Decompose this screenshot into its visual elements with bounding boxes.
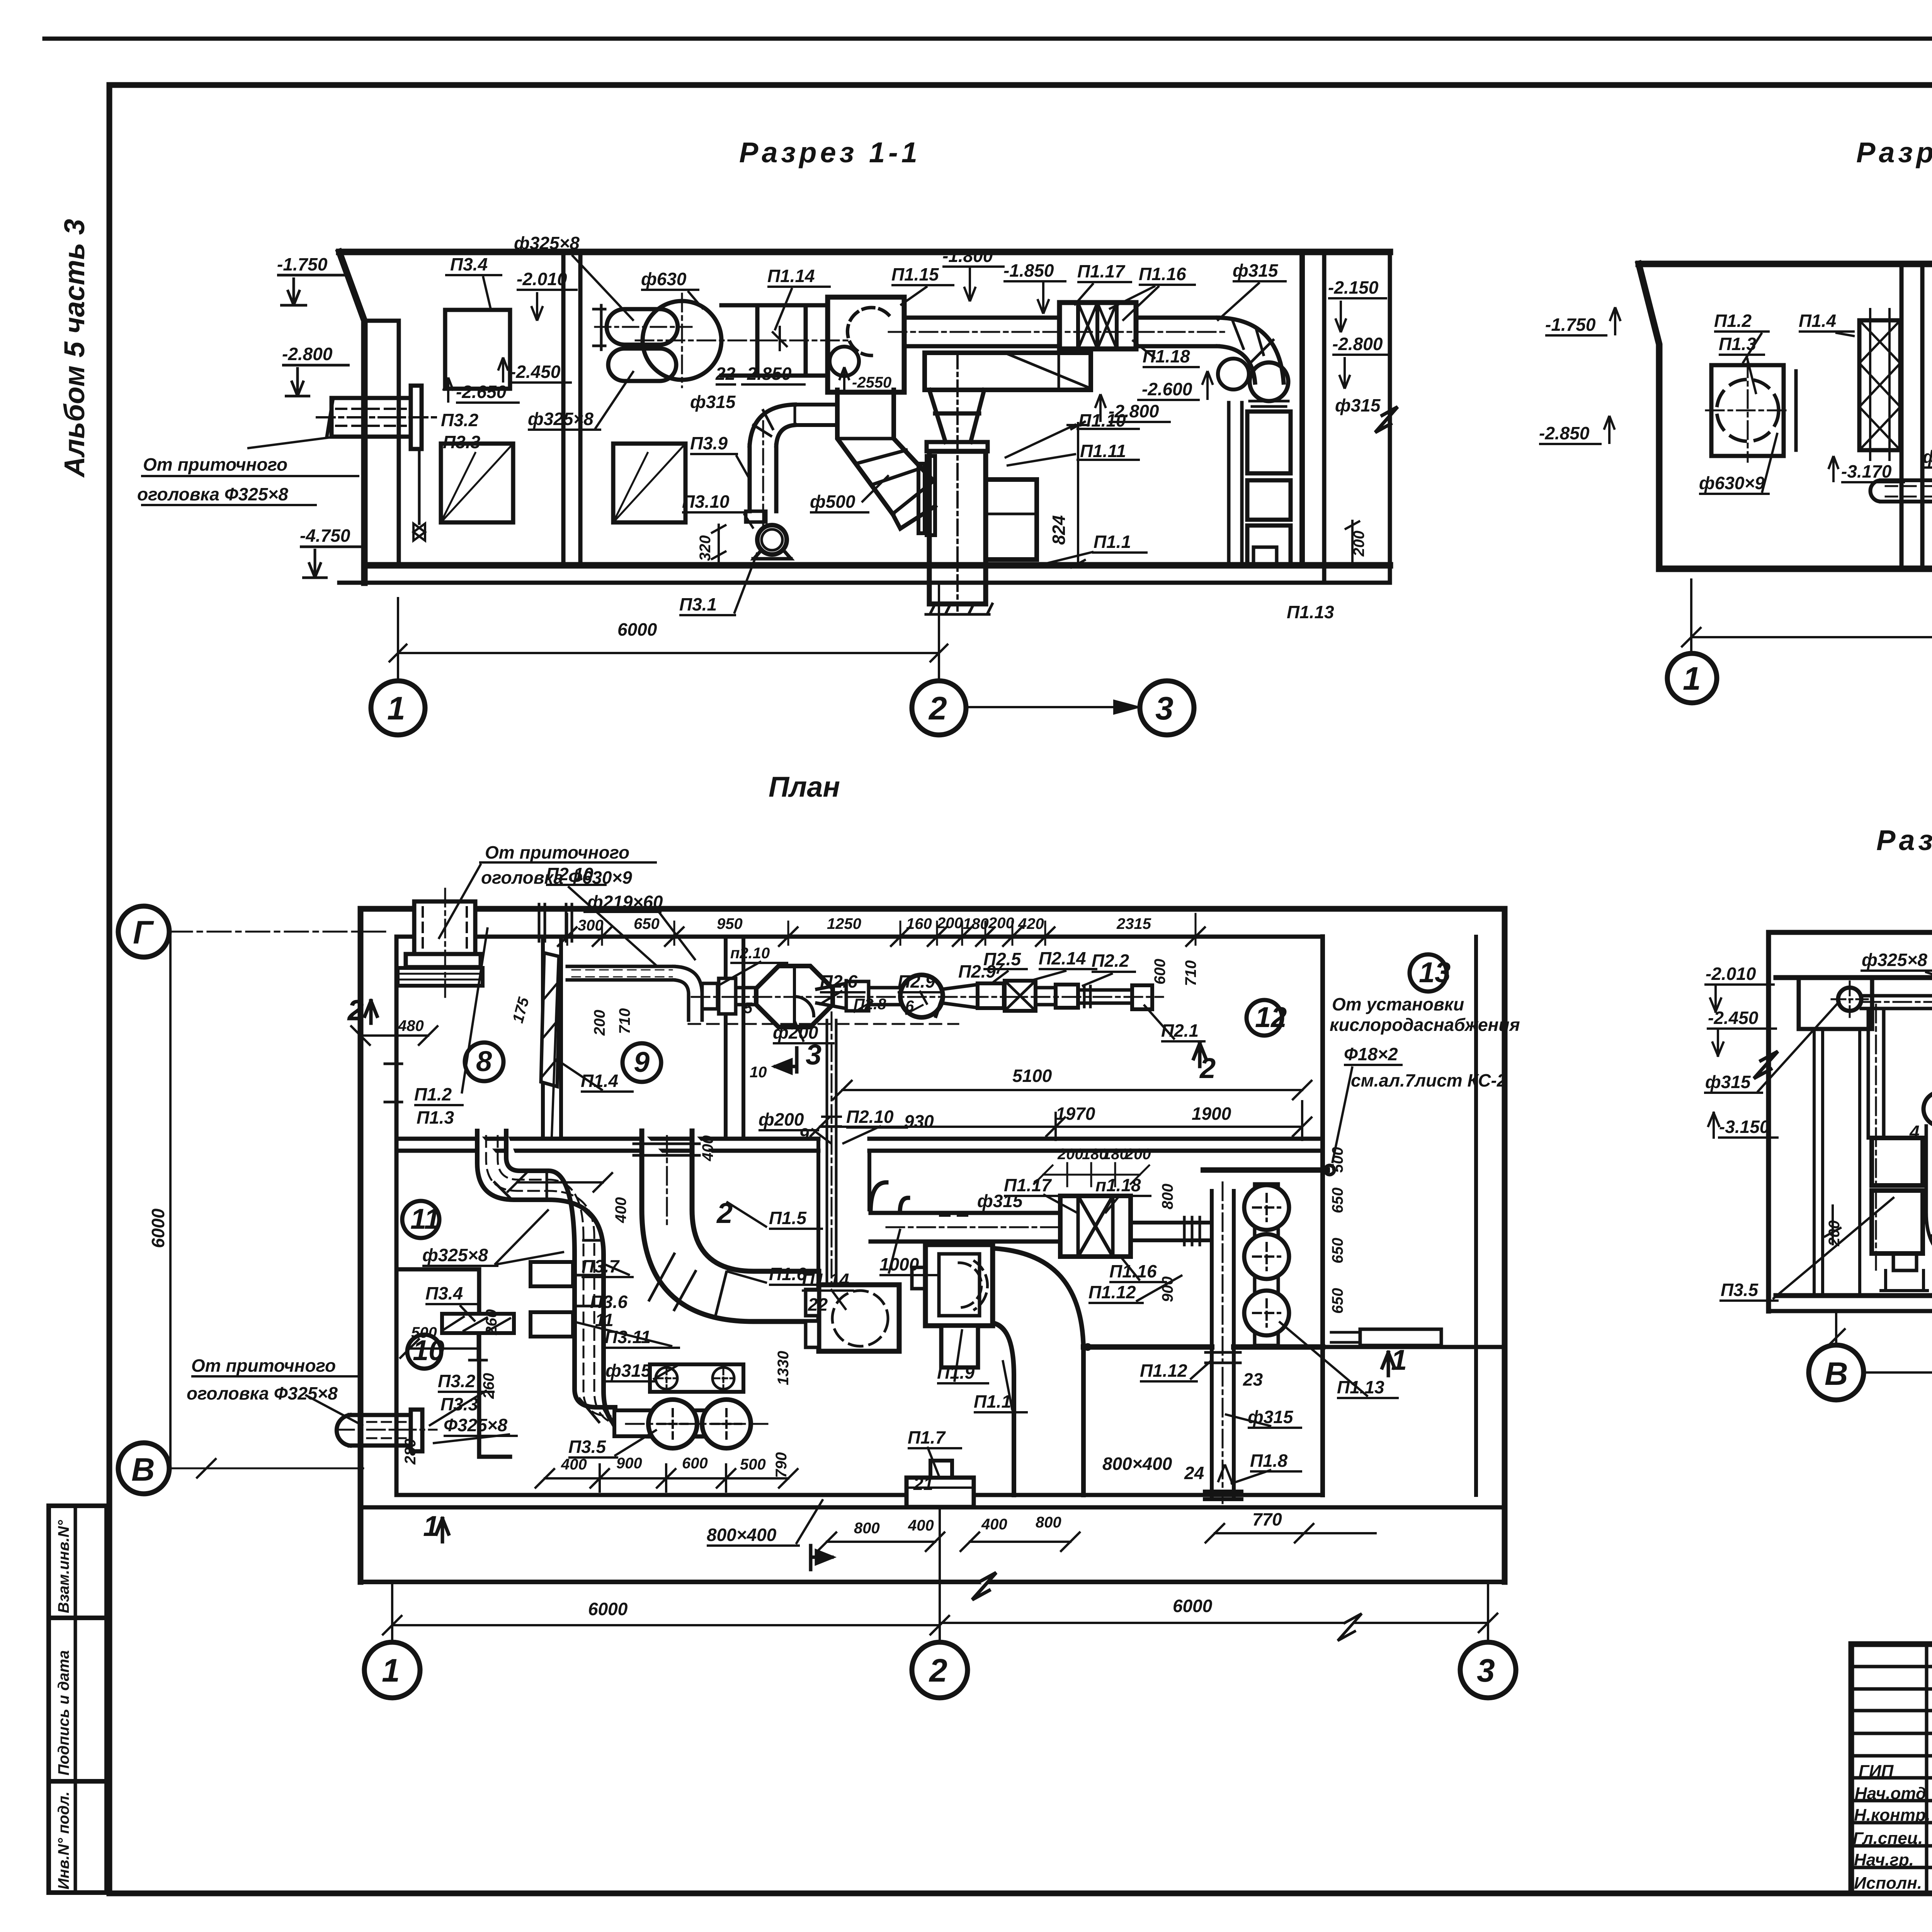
section mark 2 left [365, 1001, 377, 1023]
ceiling line [1639, 261, 1932, 267]
round duct ф219 dashed run [567, 966, 674, 980]
svg-text:320: 320 [697, 535, 714, 561]
svg-text:Исполн.: Исполн. [1854, 1874, 1922, 1893]
fan unit П1.15 [828, 297, 904, 392]
sec2-2 leaders and marks [1539, 307, 1932, 618]
dim line 6000 [1682, 576, 1932, 657]
svg-text:-2.850: -2.850 [741, 364, 792, 384]
svg-text:П3.1: П3.1 [679, 594, 717, 614]
svg-text:ф315: ф315 [1248, 1407, 1294, 1427]
svg-text:10: 10 [750, 1064, 767, 1081]
partition wall [561, 252, 566, 565]
louver П1.4 slanted strip [541, 953, 560, 1087]
svg-text:-2.450: -2.450 [510, 362, 561, 382]
svg-text:П1.3: П1.3 [1719, 334, 1756, 354]
svg-text:2: 2 [929, 1652, 947, 1689]
elevation mark -2.800 [282, 365, 350, 396]
П1.13 distributors [1255, 1184, 1278, 1345]
svg-text:П1.12: П1.12 [1140, 1361, 1187, 1381]
mark -2.550 in box [839, 367, 900, 392]
svg-text:П1.15: П1.15 [891, 264, 939, 284]
svg-text:400: 400 [561, 1456, 587, 1473]
break zigzag right [1375, 407, 1398, 432]
svg-text:П3.4: П3.4 [450, 254, 488, 274]
svg-text:Инв.N° подл.: Инв.N° подл. [55, 1791, 72, 1889]
floor [1776, 1293, 1932, 1298]
svg-text:1: 1 [1391, 1344, 1407, 1376]
dim 600 room11 [508, 1173, 612, 1192]
svg-text:П3.2: П3.2 [438, 1371, 475, 1391]
underline ф630 + leader [641, 290, 703, 309]
svg-text:-1.800: -1.800 [942, 246, 993, 266]
svg-text:План: План [769, 771, 840, 803]
boxes П3.7 П3.6 on duct [531, 1262, 573, 1286]
svg-text:6000: 6000 [1173, 1596, 1213, 1616]
left wall [1766, 932, 1771, 1311]
wall grille П3.3 left [441, 444, 513, 522]
svg-text:ф200: ф200 [759, 1109, 804, 1129]
svg-text:200: 200 [988, 915, 1014, 932]
svg-text:П2.10: П2.10 [846, 1107, 894, 1127]
svg-text:-1.750: -1.750 [277, 254, 328, 274]
svg-text:От установки: От установки [1332, 994, 1464, 1014]
П3.6 circle [1923, 1092, 1932, 1126]
svg-text:П3.2: П3.2 [441, 410, 478, 430]
svg-text:-2.800: -2.800 [1332, 334, 1383, 354]
svg-text:От приточного: От приточного [485, 842, 629, 862]
wall room9 right [726, 937, 743, 1139]
svg-text:Разрез 1-1: Разрез 1-1 [739, 136, 921, 168]
svg-text:2: 2 [928, 690, 947, 726]
underline -2.850 + П3.9 П3.10 leaders [682, 384, 806, 529]
svg-text:ф630: ф630 [641, 269, 687, 289]
svg-text:Нач.отд: Нач.отд [1855, 1784, 1926, 1803]
grid circle 1 sec2 [1667, 653, 1717, 703]
svg-text:-2.850: -2.850 [1539, 423, 1590, 443]
dim 824 [1066, 421, 1090, 568]
svg-text:650: 650 [1329, 1288, 1346, 1314]
elbow ф315 and fan П3.1 [750, 405, 795, 446]
svg-text:200: 200 [1057, 1146, 1083, 1163]
grille П1.2 П1.3 [1711, 365, 1784, 456]
bottom wall double [396, 1493, 1323, 1497]
svg-text:770: 770 [1252, 1509, 1282, 1529]
mid horizontal wall [396, 1139, 818, 1151]
elbow П1.9 [837, 390, 934, 514]
svg-text:От приточного: От приточного [191, 1355, 336, 1376]
fan П2.9 plan [900, 975, 943, 1017]
svg-text:900: 900 [616, 1455, 642, 1472]
svg-text:260: 260 [480, 1373, 497, 1399]
svg-text:ф219×60: ф219×60 [587, 892, 663, 912]
svg-text:Нач.гр.: Нач.гр. [1854, 1850, 1914, 1869]
svg-text:9: 9 [799, 1124, 809, 1145]
grid circle 1 [371, 681, 425, 735]
box П2.2 [1056, 985, 1078, 1008]
svg-text:-1.850: -1.850 [1003, 260, 1054, 281]
svg-text:-2.600: -2.600 [1142, 379, 1192, 399]
svg-text:200: 200 [1125, 1146, 1151, 1163]
fan П1.1 П1.9 plan [925, 1245, 993, 1326]
break zigzag on outer line [972, 1573, 996, 1600]
room10/11 divider [396, 1269, 479, 1457]
svg-text:600: 600 [1151, 959, 1168, 985]
mark -1.850 [1003, 281, 1066, 314]
leader from note to intake [141, 437, 359, 476]
duct to П1.13 [1203, 1167, 1327, 1173]
svg-text:650: 650 [1329, 1238, 1346, 1264]
svg-text:-3.150: -3.150 [1719, 1117, 1770, 1137]
main title block outer [1851, 1644, 1932, 1893]
svg-text:400: 400 [612, 1197, 629, 1223]
svg-text:П3.6: П3.6 [590, 1292, 628, 1312]
svg-text:-2.450: -2.450 [1708, 1008, 1759, 1028]
svg-text:200: 200 [1826, 1220, 1843, 1247]
mark -2.450 [498, 357, 572, 383]
svg-text:6000: 6000 [588, 1599, 628, 1619]
plan grid circles bottom [364, 1642, 420, 1698]
section mark 3 top [776, 1048, 797, 1073]
svg-text:П1.12: П1.12 [1088, 1282, 1136, 1302]
wall room8/9 [543, 937, 561, 1139]
svg-text:260: 260 [483, 1309, 500, 1335]
svg-text:П1.3: П1.3 [417, 1107, 454, 1128]
svg-text:280: 280 [402, 1439, 419, 1465]
svg-text:1970: 1970 [1056, 1104, 1095, 1124]
mark -2.650 [443, 378, 520, 403]
grid circle Г [118, 906, 169, 957]
section mark 1 bottom left [436, 1519, 449, 1542]
grid circle В [118, 1443, 169, 1494]
svg-text:ф500: ф500 [810, 492, 855, 512]
svg-text:650: 650 [634, 915, 660, 932]
svg-text:600: 600 [682, 1455, 708, 1472]
labels leaders sec3-3 [1862, 971, 1932, 990]
svg-text:-2550: -2550 [852, 374, 891, 391]
underline ф325х8 second [528, 371, 634, 430]
dim 500 [400, 1339, 479, 1358]
svg-text:800×400: 800×400 [1102, 1454, 1172, 1474]
svg-text:П1.8: П1.8 [1250, 1451, 1287, 1471]
sec1-1 labels [141, 254, 1391, 713]
П3 S-duct ф325х8 [477, 1131, 737, 1436]
svg-text:ф630×9: ф630×9 [1699, 473, 1765, 493]
svg-text:П3.10: П3.10 [682, 492, 730, 512]
inner wall left [1814, 1029, 1860, 1296]
right compartment walls [1299, 252, 1305, 565]
underline П1.16 + leader [1109, 285, 1196, 321]
duct from circle to П1.6 [1861, 996, 1932, 1009]
svg-text:В: В [131, 1451, 155, 1488]
cone П2.8 [817, 981, 846, 1011]
cone transition П1.10 [929, 390, 984, 442]
underline П1.18 + leader [1132, 340, 1200, 367]
ceiling line [339, 249, 1390, 255]
room number circles [402, 954, 1447, 1369]
svg-text:П1.11: П1.11 [1080, 441, 1126, 461]
bottom grid dim lines [383, 1614, 1497, 1634]
grid axis В line [169, 1468, 363, 1469]
dim 200-180-180-200 right [1034, 1163, 1149, 1186]
svg-text:-4.750: -4.750 [300, 526, 350, 546]
svg-text:Разрез 2-2: Разрез 2-2 [1856, 136, 1932, 168]
svg-text:Взам.инв.N°: Взам.инв.N° [55, 1520, 72, 1613]
signature table rows [1851, 1667, 1932, 1867]
svg-text:1330: 1330 [775, 1351, 792, 1385]
fan П2.1 duct and cap [1078, 990, 1132, 1003]
svg-text:400: 400 [699, 1135, 716, 1162]
leader П1.1 [1043, 552, 1148, 564]
svg-text:П2.6: П2.6 [820, 971, 857, 992]
svg-text:480: 480 [398, 1017, 424, 1034]
svg-text:Н.контр.: Н.контр. [1854, 1806, 1930, 1825]
svg-text:-2.650: -2.650 [456, 382, 507, 402]
ф315 end circle [1838, 988, 1861, 1011]
svg-text:5: 5 [744, 1000, 753, 1017]
svg-text:П3.5: П3.5 [568, 1437, 606, 1457]
svg-text:400: 400 [981, 1516, 1007, 1533]
svg-text:Разрез 3-3: Разрез 3-3 [1876, 824, 1932, 856]
svg-text:22: 22 [715, 364, 736, 384]
svg-text:180: 180 [963, 915, 989, 932]
box П3.4 [445, 310, 510, 389]
svg-text:180: 180 [1102, 1146, 1128, 1163]
svg-text:9: 9 [634, 1046, 650, 1078]
svg-text:В: В [1825, 1355, 1848, 1392]
intake duct through left wall [332, 398, 411, 437]
svg-text:6: 6 [905, 998, 914, 1015]
plenum box center [925, 353, 1091, 390]
right zone elevation marks [1328, 298, 1387, 332]
heaters П3.5 left [1872, 1138, 1923, 1185]
svg-text:13: 13 [1419, 956, 1451, 988]
svg-text:Ф325×8: Ф325×8 [444, 1415, 508, 1435]
floor [1659, 566, 1932, 572]
grille stub right room [1360, 1329, 1441, 1345]
svg-text:-2.010: -2.010 [517, 269, 567, 289]
leaders П1.10 П1.11 [1005, 424, 1076, 466]
intake stub ф630х9 top left [414, 901, 475, 954]
underline П1.17 + leader [1074, 282, 1132, 305]
svg-text:ф219×6: ф219×6 [1923, 447, 1932, 467]
mark -2.600 up arrow [1137, 371, 1213, 400]
svg-text:ф315: ф315 [1335, 395, 1381, 415]
svg-text:П2.2: П2.2 [1092, 951, 1129, 971]
svg-text:П1.6: П1.6 [769, 1264, 806, 1284]
svg-text:ф325×8: ф325×8 [1862, 950, 1927, 970]
svg-text:200: 200 [937, 915, 963, 932]
svg-text:П3.4: П3.4 [425, 1283, 463, 1303]
underline П1.14 + leader [767, 287, 831, 330]
duct heater to elbow [1136, 318, 1218, 346]
svg-text:ф315: ф315 [605, 1361, 651, 1381]
svg-text:8: 8 [476, 1045, 492, 1077]
section mark 2 right top [1194, 1043, 1206, 1066]
grid circle 3 [1140, 681, 1194, 735]
svg-text:От приточного: От приточного [143, 454, 287, 474]
heater stack П1.13 [1229, 403, 1242, 561]
section mark 3 bottom [811, 1546, 832, 1570]
dim 930 1970 1900 [811, 1101, 1311, 1140]
svg-text:3: 3 [1155, 690, 1173, 726]
elevation mark -4.750 [300, 547, 367, 578]
svg-text:160: 160 [906, 915, 932, 932]
svg-text:П1.18: П1.18 [1143, 346, 1190, 366]
wall below rooms 12/13 [1323, 1345, 1505, 1349]
sheet top edge [44, 37, 1932, 41]
svg-text:1900: 1900 [1192, 1104, 1231, 1124]
break marks [1754, 1051, 1778, 1078]
svg-text:П1.5: П1.5 [769, 1208, 807, 1228]
svg-text:оголовка Ф325×8: оголовка Ф325×8 [187, 1383, 338, 1403]
svg-text:П2.14: П2.14 [1039, 948, 1086, 968]
svg-text:824: 824 [1049, 515, 1069, 545]
plan text labels [191, 862, 1403, 1546]
ф315 run to heater [871, 1213, 1060, 1242]
svg-text:6000: 6000 [617, 619, 657, 639]
twin round ducts ф325х8 [607, 309, 678, 345]
svg-text:П1.13: П1.13 [1337, 1377, 1384, 1397]
duct ф200 vertical [827, 1020, 836, 1285]
svg-text:П3.9: П3.9 [690, 433, 728, 453]
grid dim line [389, 583, 948, 681]
svg-text:ф315: ф315 [1233, 260, 1279, 281]
section mark 1 right [1382, 1352, 1395, 1376]
svg-text:1: 1 [1683, 660, 1701, 697]
svg-text:П3.5: П3.5 [1721, 1280, 1759, 1300]
dims 800 400 bottom [818, 1532, 1080, 1551]
svg-text:900: 900 [1159, 1276, 1176, 1302]
svg-text:500: 500 [740, 1456, 766, 1473]
vertical duct ф315 [1212, 1191, 1234, 1498]
svg-text:2: 2 [1199, 1052, 1216, 1084]
svg-text:П2.8: П2.8 [854, 996, 886, 1013]
partition wall 1 [1901, 264, 1922, 569]
svg-text:ф315: ф315 [690, 392, 736, 412]
duct ф630 end view [643, 301, 721, 380]
svg-text:200: 200 [591, 1010, 608, 1036]
svg-text:П1.1: П1.1 [974, 1391, 1011, 1412]
duct П1.15 to heater [904, 318, 1060, 346]
underline П3.1 + leader [679, 553, 757, 615]
svg-text:П1.10: П1.10 [1078, 410, 1126, 430]
svg-text:650: 650 [1329, 1187, 1346, 1213]
corridor walls center [818, 1139, 869, 1347]
svg-text:Г: Г [133, 914, 154, 951]
svg-text:400: 400 [908, 1517, 934, 1534]
fan circles at elbow [1218, 359, 1249, 389]
fan П2.6 plan [756, 966, 833, 1027]
svg-text:22: 22 [808, 1294, 828, 1315]
svg-text:п1.18: п1.18 [1095, 1175, 1141, 1195]
svg-text:-3.170: -3.170 [1841, 461, 1892, 481]
svg-text:500: 500 [1329, 1147, 1346, 1173]
svg-text:П1.7: П1.7 [908, 1427, 946, 1447]
top slab line [1769, 930, 1932, 935]
round duct ф219х6 S run [1881, 480, 1932, 502]
underline П3.4 + leader [445, 275, 502, 309]
sec1-1 interior equipment [317, 294, 1291, 614]
svg-text:Подпись и дата: Подпись и дата [55, 1650, 72, 1776]
svg-text:4: 4 [1909, 1122, 1920, 1142]
svg-text:Альбом 5 часть 3: Альбом 5 часть 3 [58, 219, 90, 478]
svg-text:П2.9: П2.9 [898, 971, 935, 992]
svg-text:ф325×8: ф325×8 [422, 1245, 488, 1265]
wall grille right [613, 444, 685, 522]
svg-text:2315: 2315 [1116, 915, 1151, 932]
elbow down ф315 [1218, 318, 1284, 383]
svg-text:П1.17: П1.17 [1004, 1175, 1052, 1195]
big bend 800x400 down [995, 1248, 1083, 1495]
elevation mark -1.750 [277, 275, 348, 305]
svg-text:800: 800 [1159, 1184, 1176, 1209]
svg-text:П1.13: П1.13 [1287, 602, 1334, 622]
heater П1.17 П1.16 [1060, 303, 1136, 349]
left vertical dim 6000 [169, 932, 172, 1468]
svg-text:1250: 1250 [827, 915, 861, 932]
svg-text:-2.800: -2.800 [282, 344, 333, 364]
svg-text:ф325×8: ф325×8 [528, 409, 594, 429]
П3.5 heater assembly [650, 1364, 743, 1392]
left wall with bevel [1639, 264, 1659, 569]
window break top wall 175 [539, 904, 572, 941]
svg-text:950: 950 [717, 915, 743, 932]
duct П1.12 top edge [1083, 1344, 1212, 1350]
svg-text:2: 2 [716, 1197, 733, 1229]
underline ф325х8 + leader [512, 254, 634, 321]
svg-text:3: 3 [1477, 1652, 1495, 1689]
svg-text:П3.3: П3.3 [443, 432, 480, 452]
svg-text:Гл.спец.: Гл.спец. [1853, 1829, 1923, 1848]
svg-text:П1.4: П1.4 [1799, 311, 1836, 331]
П2 train left fittings [702, 983, 718, 1009]
svg-text:2: 2 [347, 994, 364, 1026]
grid axis Г line [169, 931, 386, 933]
svg-text:П2.1: П2.1 [1161, 1020, 1199, 1041]
svg-text:-2.150: -2.150 [1328, 277, 1379, 298]
svg-text:7: 7 [995, 960, 1004, 977]
cone and boxes П2.5 П2.14 [943, 985, 978, 1008]
big duct П1.5 П1.6 with elbow [642, 1131, 819, 1321]
underline ф315 + leader [1217, 281, 1287, 321]
plan ducts [398, 889, 1441, 1507]
grid circle В sec3 [1809, 1345, 1864, 1400]
В-Г line with arrow [1864, 1366, 1932, 1379]
dim 400 900 600 500 [536, 1464, 798, 1492]
svg-text:1000: 1000 [879, 1254, 919, 1274]
valve stem below intake [418, 449, 421, 524]
svg-text:П2.10: П2.10 [546, 864, 594, 884]
beam top left [1799, 978, 1872, 1029]
svg-text:1: 1 [382, 1652, 400, 1689]
right rooms wall [1320, 937, 1325, 1495]
svg-text:1: 1 [423, 1510, 439, 1542]
grille П1.7 [906, 1478, 974, 1507]
dim 320 [711, 524, 726, 568]
window break left wall + dim 480 [385, 1064, 402, 1102]
duct heater to vertical [1131, 1223, 1212, 1240]
svg-text:Ф18×2: Ф18×2 [1344, 1044, 1398, 1064]
fan box П1.1 [929, 451, 986, 604]
underline П1.15 + leader [891, 285, 954, 305]
svg-text:800×400: 800×400 [707, 1525, 777, 1545]
dim 5100 [833, 1081, 1311, 1099]
junction box П1.14 [819, 1285, 899, 1351]
svg-text:ф315: ф315 [1705, 1072, 1751, 1092]
svg-text:710: 710 [616, 1008, 633, 1034]
svg-text:710: 710 [1182, 960, 1199, 986]
heater П1.17 plan [1060, 1196, 1131, 1257]
